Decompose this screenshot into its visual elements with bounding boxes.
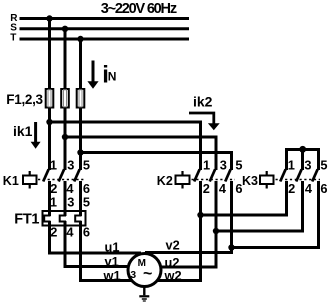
pin numbers FT1 top 1 3 5 (50, 195, 90, 210)
svg-text:w2: w2 (164, 268, 182, 283)
node R label (10, 13, 18, 24)
svg-text:4: 4 (66, 181, 74, 196)
wire FT1 to motor u1 (50, 221, 142, 253)
junction S drop (62, 26, 68, 32)
label K2 (157, 174, 173, 188)
coil K2 (176, 171, 190, 189)
svg-text:ik2: ik2 (193, 94, 213, 110)
svg-text:3: 3 (220, 158, 227, 173)
label v2 (166, 237, 180, 252)
svg-text:6: 6 (83, 225, 90, 240)
junction B2 (62, 134, 68, 140)
wire branch B3 to K2 contact 5 (81, 153, 232, 171)
arrow iN (87, 61, 98, 89)
wire H3 K2-6 to K3-6 (232, 181, 319, 248)
label K1 (3, 174, 19, 188)
svg-text:4: 4 (305, 181, 313, 196)
pin numbers K2 top 1 3 5 (203, 158, 243, 173)
thermal overload FT1 box (43, 211, 86, 226)
wire K3 star bus (287, 150, 319, 171)
wire H2 K2-4 to K3-4 (216, 181, 303, 231)
pin numbers FT1 bottom 2 4 6 (50, 225, 90, 240)
svg-text:v2: v2 (166, 237, 180, 252)
contact K1-3/4 blade (59, 169, 64, 181)
svg-text:1: 1 (288, 158, 295, 173)
wire FT1 to motor w1 (81, 221, 142, 281)
svg-text:5: 5 (320, 158, 327, 173)
svg-text:2: 2 (50, 181, 57, 196)
linkage K1 dashed (38, 179, 84, 181)
label w1 (103, 268, 121, 283)
pin numbers K1 bottom 2 4 6 (50, 181, 90, 196)
linkage K2 dashed (192, 179, 236, 181)
junction H3 (228, 244, 234, 250)
svg-text:K3: K3 (242, 174, 258, 188)
fuse F3 (77, 89, 85, 108)
coil K1 (23, 171, 37, 189)
arrow ik1 (31, 122, 41, 149)
pin numbers K3 top 1 3 5 (288, 158, 328, 173)
fuse F2 (61, 89, 69, 108)
FT1 heater element phase3 (75, 216, 81, 222)
svg-text:2: 2 (288, 181, 295, 196)
svg-text:3~220V 60Hz: 3~220V 60Hz (101, 1, 177, 17)
svg-text:v1: v1 (105, 254, 119, 269)
svg-text:u1: u1 (105, 239, 120, 254)
junction star bus (299, 146, 306, 153)
junction R drop (46, 15, 52, 21)
wire phase-R drop to fuse F1 (48, 19, 51, 90)
svg-text:4: 4 (66, 225, 74, 240)
node S label (10, 23, 17, 34)
label iN (102, 61, 116, 88)
wire K1 contacts to FT1 (50, 181, 81, 216)
junction H2 (213, 228, 219, 234)
label ik2 (193, 94, 213, 110)
label v1 (105, 254, 119, 269)
arrow ik2 (189, 113, 220, 130)
motor M circle (128, 254, 161, 287)
motor label M 3~ (130, 258, 152, 282)
pin numbers K1 top 1 3 5 (50, 158, 90, 173)
wire phase2 fuse to K1 contact 3 (64, 108, 67, 171)
pin numbers K3 bottom 2 4 6 (288, 181, 327, 196)
label w2 (164, 268, 182, 283)
label u1 (105, 239, 120, 254)
contact K2-3/4 blade (210, 169, 215, 181)
wire phase-S drop to fuse F2 (64, 29, 67, 90)
wire H1 K2-2 to K3-2 (201, 181, 287, 215)
FT1 heater element phase1 (44, 216, 50, 222)
contact K1-1/2 blade (43, 169, 48, 181)
svg-text:1: 1 (50, 158, 57, 173)
wire K3 star bus middle leg (301, 150, 304, 171)
svg-text:3: 3 (130, 270, 136, 281)
svg-text:ik1: ik1 (13, 123, 33, 139)
contact K3-3/4 blade (296, 169, 301, 181)
contact K2-5/6 blade (225, 169, 230, 181)
svg-text:4: 4 (219, 181, 227, 196)
linkage K3 dashed (276, 179, 321, 181)
svg-text:T: T (10, 33, 16, 44)
wire phase3 fuse to K1 contact 5 (79, 108, 82, 171)
pin numbers K2 bottom 2 4 6 (203, 181, 243, 196)
svg-text:5: 5 (235, 158, 242, 173)
svg-text:F1,2,3: F1,2,3 (6, 92, 43, 107)
ground symbol (139, 287, 149, 302)
label F1,2,3 (6, 92, 43, 107)
wire phase1 fuse to K1 contact 1 (48, 108, 51, 171)
wire FT1 to motor v1 (65, 221, 141, 267)
contact K2-1/2 blade (194, 169, 199, 181)
svg-text:K1: K1 (3, 174, 19, 188)
svg-text:1: 1 (203, 158, 210, 173)
svg-text:6: 6 (83, 181, 90, 196)
label K3 (242, 174, 258, 188)
node T label (10, 33, 16, 44)
svg-text:1: 1 (50, 195, 57, 210)
contact K3-1/2 blade (280, 169, 285, 181)
label ik1 (13, 123, 33, 139)
wire S bus (20, 27, 190, 30)
junction H1 (197, 212, 203, 218)
wire K2-4 down to u2 (145, 181, 216, 267)
svg-text:3: 3 (67, 158, 74, 173)
fuse F1 (46, 89, 54, 108)
junction T drop (77, 36, 83, 42)
svg-text:K2: K2 (157, 174, 173, 188)
FT1 heater element phase2 (60, 216, 66, 222)
svg-text:N: N (108, 69, 117, 83)
contact K3-5/6 blade (312, 169, 317, 181)
svg-text:5: 5 (83, 158, 90, 173)
svg-text:6: 6 (320, 181, 327, 196)
svg-text:~: ~ (143, 265, 152, 282)
svg-text:FT1: FT1 (14, 211, 39, 227)
wire K2-2 down to w2 (145, 181, 201, 281)
svg-text:2: 2 (50, 225, 57, 240)
wire K2-6 down to v2 (145, 181, 232, 253)
label u2 (165, 255, 180, 270)
wire branch B2 to K2 contact 3 (65, 137, 216, 170)
junction B3 (77, 149, 83, 155)
coil K3 (260, 171, 274, 189)
wire T bus (20, 38, 190, 41)
label FT1 (14, 211, 39, 227)
contact K1-5/6 blade (74, 169, 79, 181)
junction B1 (46, 119, 52, 125)
wire phase-T drop to fuse F3 (79, 39, 82, 90)
wire branch B1 to K2 contact 1 (50, 122, 201, 170)
wire R bus (20, 17, 190, 20)
svg-text:w1: w1 (103, 268, 121, 283)
svg-text:3: 3 (304, 158, 311, 173)
svg-text:2: 2 (203, 181, 210, 196)
svg-text:3: 3 (67, 195, 74, 210)
svg-text:5: 5 (83, 195, 90, 210)
title 3~220V 60Hz (101, 1, 177, 17)
